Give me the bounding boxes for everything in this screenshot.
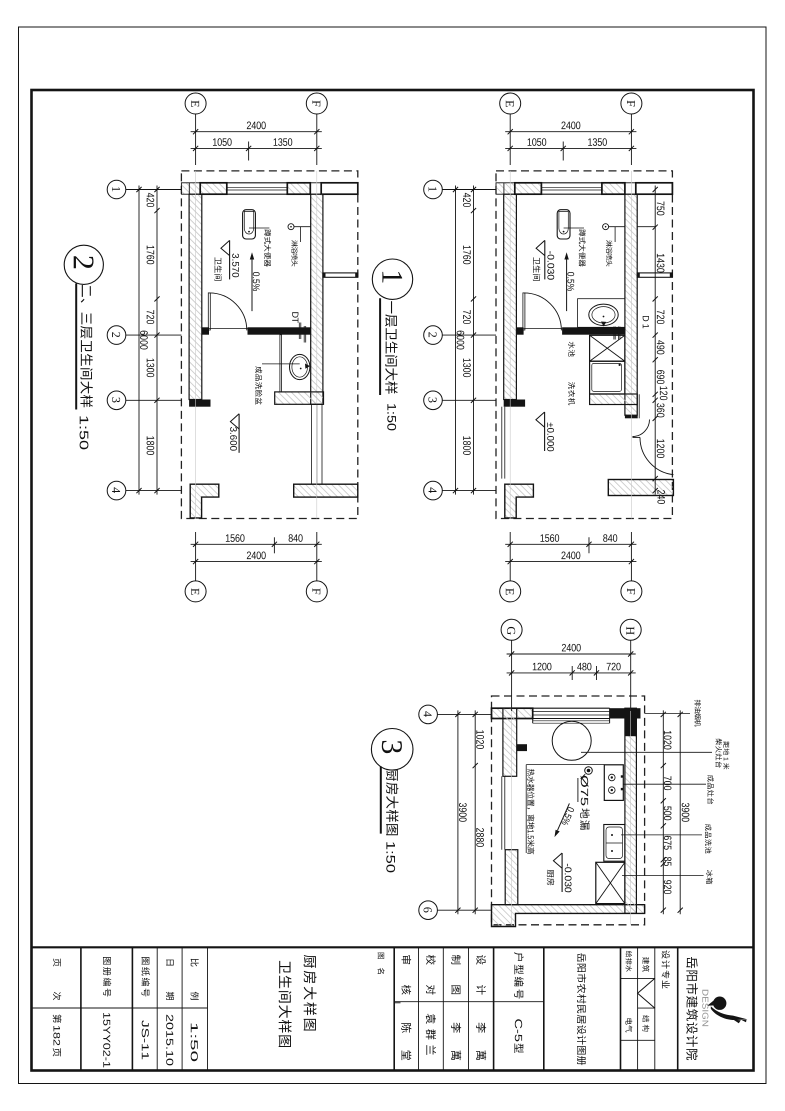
plan2 grid bubble 1 left [424, 180, 443, 199]
plan1 washbasin [290, 354, 310, 379]
plan3 sink [604, 825, 625, 862]
plan2 squat toilet [557, 210, 570, 239]
label 电气 [625, 1018, 632, 1032]
plan1 interior right wall [311, 194, 323, 404]
plan3 left boundary window lines [501, 776, 503, 849]
plan3 left wall step block [517, 744, 527, 751]
value JS-11 [142, 1020, 149, 1059]
plan1 slope arrow [251, 258, 253, 311]
plan2 label 0.5% [567, 272, 574, 291]
header 设计专业 [662, 950, 670, 988]
plan2 top wall pier left of window [515, 183, 542, 194]
plan2 washing machine [590, 361, 625, 394]
plan title circle 1 [372, 259, 412, 299]
plan1 grid extension lines top [195, 114, 197, 165]
plan3 level mark -0.030 厨房 [561, 853, 563, 892]
plan1 label 蹲式大便器 [264, 229, 271, 266]
plan3 window in top wall [533, 707, 610, 709]
plan2 left exterior wall [504, 194, 517, 399]
plan3 floor drain symbol [585, 767, 593, 775]
plan1 grid bubble 3 left [107, 391, 126, 410]
plan2 door D1 swing arcs [633, 420, 650, 437]
project 岳阳市农村民居设计图册 [577, 953, 586, 1065]
plan2 bottom-left wall piece [505, 484, 534, 518]
plan3 top wall left pier [492, 708, 533, 718]
plan3 left wall lower [505, 850, 518, 905]
plan2 stub wall right [637, 273, 672, 277]
plan title underline [380, 766, 382, 833]
plan1 dim 2400 top [191, 131, 322, 133]
plan2 dim 2400 top [505, 131, 636, 133]
label 结构 [642, 1015, 649, 1031]
plan2 washbasin [589, 304, 618, 325]
plan3 top wall right pier [610, 708, 641, 718]
value C-5型 [515, 1019, 522, 1041]
label 建筑 [642, 957, 649, 972]
plan2 bottom-right wall piece [608, 480, 673, 496]
plan2 axis lines [509, 171, 511, 519]
title block divider x=182.1 [181, 947, 183, 1070]
plan3 fridge [596, 862, 625, 903]
plan1 washbasin leader [262, 363, 300, 365]
plan1 left wall end block [189, 400, 210, 407]
plan2 top wall corner block [496, 183, 515, 194]
value 15YY02-1 [103, 1013, 110, 1067]
value 2015.10 [166, 1015, 173, 1066]
plan2 level mark -0.030 卫生间 [544, 240, 546, 279]
plan3 leader 排油烟机 [645, 712, 690, 714]
plan1 grid bubble 4 left [107, 481, 126, 500]
title block divider x=654.8 [654, 947, 656, 1070]
logo bird [707, 997, 747, 1024]
plan2 door jamb stub [516, 327, 523, 334]
plan2 right wall end cap [625, 415, 637, 418]
plan2 label 水池 [568, 342, 575, 357]
plan1 level mark 3.600 [238, 414, 240, 453]
plan3 dim 2400 top [507, 653, 636, 655]
plan2 grid bubble F top [621, 93, 642, 114]
plan2 grid bubble E top [500, 93, 521, 114]
plan2 grid extension lines top [509, 114, 511, 165]
titleblock column 校对 袁群兰 [426, 1014, 436, 1055]
plan2 dim 6000 left [455, 186, 457, 495]
plan2 laundry sink box [590, 335, 625, 361]
plan1 dim 1560/840 bottom [191, 543, 322, 545]
plan title circle 2 [64, 245, 103, 284]
value 第182页 [53, 1048, 61, 1056]
title block divider x=677.7 [677, 947, 679, 1070]
plan2 laundry area bottom wall [590, 394, 638, 405]
header 图册编号 [103, 957, 111, 996]
plan1 washbasin room bottom wall [275, 392, 324, 404]
plan2 drain pipe marks [613, 327, 615, 340]
plan3 grid bubble H [620, 619, 641, 640]
plan2 dim 2400 bottom [505, 561, 636, 563]
company 岳阳市建筑设计院 [686, 957, 698, 1060]
plan2 door swing arc [524, 293, 562, 331]
plan title circle 3 [371, 729, 413, 771]
plan title underline [379, 298, 381, 395]
plan3 dim 3900 left [457, 710, 459, 914]
plan1 top wall corner block [181, 183, 200, 194]
plan1 door jamb stub [202, 327, 209, 334]
plan2 dim chain right [654, 186, 656, 495]
plan1 dim chain left [156, 186, 158, 495]
plan2 grid bubble 3 left [424, 391, 443, 410]
plan title text [385, 301, 397, 394]
title block divider x=493.6 [493, 947, 495, 1070]
header 页次 [53, 992, 61, 1000]
plan1 top wall pier left of window [200, 183, 227, 194]
plan3 right wall [625, 708, 637, 913]
title block divider x=157.2 [156, 947, 158, 1070]
plan1 toilet label leader [249, 227, 269, 229]
header 比例 [190, 992, 198, 1000]
title block divider x=207.5 [207, 947, 209, 1070]
plan1 grid bubble 1 left [107, 180, 126, 199]
plan2 door leaf [523, 293, 525, 330]
plan1 door swing arc [209, 293, 247, 331]
plan2 grid bubble 2 left [424, 326, 443, 345]
title block divider x=620.5 [620, 947, 622, 1070]
title block top line [32, 946, 754, 948]
plan3 dim 1020/2880 left [474, 710, 476, 914]
plan3 right wall black top [625, 708, 637, 736]
plan3 counter edge lines [526, 764, 604, 766]
plan title text [80, 285, 92, 407]
title block divider x=468.5 [468, 947, 470, 1070]
plan2 label D1 [643, 316, 649, 328]
title block 设计专业 row lines [621, 977, 655, 979]
title 卫生间大样图 [279, 961, 292, 1047]
plan1 drain pipe marks [298, 323, 300, 340]
plan3 leader 成品灶台 [624, 783, 707, 785]
plan1 squat toilet [243, 210, 256, 239]
plan1 top wall pier right of window [287, 183, 310, 194]
plan2 dim 1050/1350 top [505, 147, 636, 149]
titleblock column 制图 李萬 [451, 1023, 461, 1060]
plan1 bathroom bottom wall [248, 327, 311, 334]
plan3 bottom wall [492, 905, 645, 927]
plan2 basin counter [578, 299, 625, 328]
plan2 left wall end block [504, 400, 525, 407]
plan2 exterior right wall [625, 194, 637, 415]
plan1 bottom-left wall piece [190, 484, 219, 518]
plan1 label 淋浴喷头 [291, 240, 297, 266]
plan1 stub wall right [323, 273, 358, 277]
plan3 leader 成品洗池 [621, 834, 702, 836]
title block divider x=394.2 [393, 947, 395, 1070]
title block divider x=132.4 [131, 947, 133, 1070]
plan3 slope arrow [558, 803, 570, 830]
plan1 top wall blocks right [310, 183, 321, 194]
header 图名 [378, 968, 385, 974]
title block divider x=543.8 [543, 947, 545, 1070]
plan3 grid bubble 4 [419, 705, 438, 724]
plan1 grid bubble F bottom [306, 581, 327, 602]
value 1:50 [191, 1024, 198, 1062]
plan1 dim 1050/1350 top [191, 147, 322, 149]
plan2 dim chain left [473, 186, 475, 495]
plan1 grid bubble E top [185, 93, 206, 114]
title block divider x=80.9 [80, 947, 82, 1070]
plan1 grid bubble 2 left [107, 326, 126, 345]
plan2 level mark ±0.000 [544, 412, 546, 451]
plan1 door leaf [208, 293, 210, 330]
plan2 grid bubble F bottom [621, 581, 642, 602]
plan2 top wall blocks right [625, 183, 636, 194]
plan3 gas stove [604, 765, 623, 801]
plan title scale 1:50 [387, 404, 396, 430]
header 图纸编号 [141, 957, 149, 996]
plan2 label 蹲式大便器 [579, 229, 586, 266]
plan2 dashed plan boundary [496, 171, 672, 519]
plan3 axis lines [511, 696, 513, 925]
plan title text [386, 769, 398, 836]
plan3 leader 冰箱 [622, 874, 704, 876]
plan2 thin wall above door D1 [636, 394, 638, 418]
title block divider x=418.5 [418, 947, 420, 1070]
label 给排水 [626, 951, 632, 972]
plan2 top wall pier right of window [602, 183, 625, 194]
plan1 grid bubble F top [306, 93, 327, 114]
plan3 dim 3900 right [679, 710, 681, 914]
plan3 label Φ75地漏 [581, 776, 589, 806]
plan1 left exterior wall [189, 194, 202, 399]
plan3 dim chain right [662, 710, 664, 914]
plan3 left wall upper [503, 708, 517, 776]
title block divider x=443.3 [442, 947, 444, 1070]
plan2 label 淋浴喷头 [606, 240, 612, 266]
title block row divider names [394, 1001, 544, 1003]
plan title underline [75, 284, 77, 410]
plan3 grid extension lines [511, 640, 513, 711]
plan2 grid bubble E bottom [500, 581, 521, 602]
plan1 label DT [292, 312, 298, 323]
plan2 slope arrow [566, 258, 568, 311]
plan2 door threshold line [524, 327, 563, 329]
plan2 dim 1560/840 bottom [505, 543, 636, 545]
plan2 bathroom bottom wall [562, 327, 625, 334]
title block discipline check mark [638, 978, 655, 1008]
plan2 window lines on left boundary [501, 407, 503, 479]
plan2 shower head [603, 224, 609, 230]
header 户型编号 [514, 952, 524, 998]
plan1 dashed plan boundary [181, 171, 357, 519]
plan1 washbasin room partition [280, 335, 282, 392]
plan2 label 洗衣机 [568, 382, 575, 405]
plan3 leader 柴火灶台 [581, 751, 712, 753]
plan3 dashed boundary [492, 696, 645, 925]
plan1 window in top wall [227, 182, 287, 184]
plan1 door threshold line [209, 327, 248, 329]
header 日期 [166, 992, 174, 1000]
title block 图名 header divider stub [394, 1002, 400, 1004]
titleblock column 审核 陈堂 [401, 1023, 411, 1060]
plan3 dim 1200/480/720 [507, 672, 636, 674]
titleblock column 设计 李萬 [476, 1023, 486, 1060]
plan1 grid bubble E bottom [185, 581, 206, 602]
plan1 label 0.5% [253, 272, 260, 291]
plan1 bottom-right wall piece [294, 484, 358, 497]
plan3 grid bubble 6 [419, 901, 438, 920]
title block row divider left [32, 1007, 208, 1009]
plan1 dim 2400 bottom [191, 561, 322, 563]
plan title scale 1:50 [386, 842, 395, 872]
plan3 label 0.5% [561, 806, 574, 826]
plan2 grid bubble 4 left [424, 481, 443, 500]
title 厨房大样图 [304, 955, 317, 1031]
plan1 shower head [288, 224, 294, 230]
plan3 grid bubble G [501, 619, 522, 640]
logo DESIGN text [702, 990, 708, 1026]
plan3 range hood flue circle [552, 721, 591, 760]
plan2 toilet label leader [564, 227, 584, 229]
plan1 level mark 3.570 卫生间 [229, 240, 231, 279]
plan1 axis lines [195, 171, 197, 519]
title block divider x=637.6 [637, 947, 639, 1070]
plan title scale 1:50 [80, 416, 89, 449]
plan3 label 热水器位置，离地1.5米高 [527, 769, 534, 829]
plan2 window in top wall [541, 182, 602, 184]
plan1 pipe shaft lines [311, 404, 313, 484]
plan1 label 成品洗脸盆 [255, 366, 262, 404]
plan1 dim 6000 left [138, 186, 140, 495]
